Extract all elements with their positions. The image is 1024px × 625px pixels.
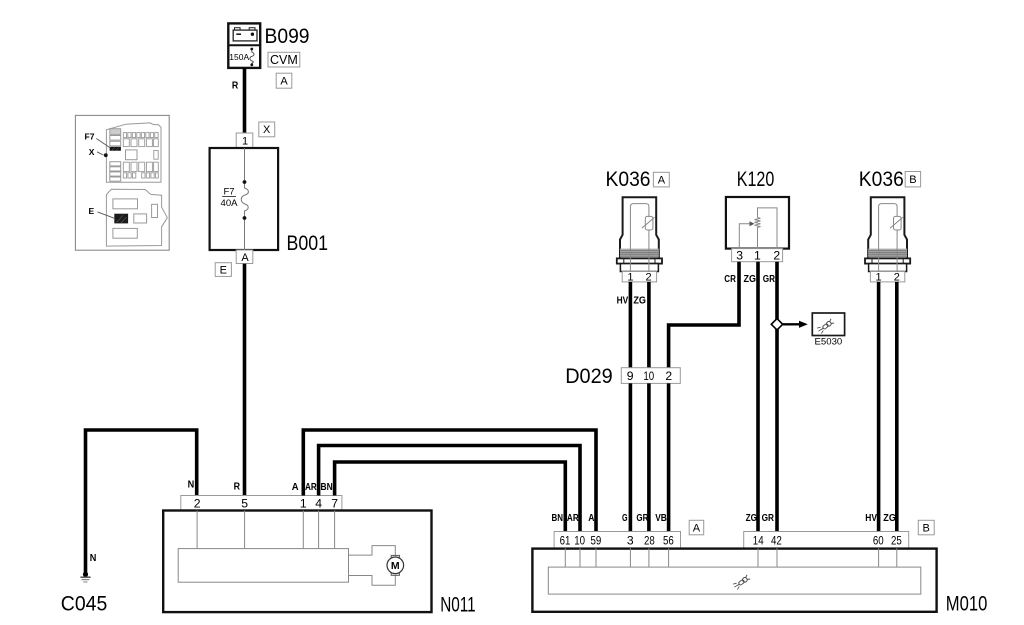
connector E box — [215, 263, 231, 277]
connector B label box — [918, 520, 934, 535]
SECTION: battery B099 — [228, 23, 309, 133]
wire GR K120 pin2 to M010 pin42 — [775, 262, 779, 532]
internal pin leads — [197, 511, 335, 549]
K120 connector strip — [732, 249, 783, 262]
SECTION: M010 — [532, 513, 987, 615]
connector A label box — [689, 520, 704, 535]
svg-text:GR: GR — [636, 513, 648, 524]
svg-text:14: 14 — [753, 534, 764, 548]
SECTION: E5030 — [771, 313, 844, 348]
svg-text:AR: AR — [305, 482, 317, 493]
svg-text:3: 3 — [627, 534, 634, 548]
pin 1 box — [236, 133, 253, 148]
potentiometer symbol — [758, 208, 778, 249]
svg-text:D029: D029 — [565, 365, 613, 388]
svg-text:N011: N011 — [440, 593, 476, 616]
svg-text:2: 2 — [773, 248, 780, 262]
wire GR D029 pin10 to M010 pin28 — [647, 383, 651, 531]
wire VB D029 pin2 to M010 pin56 — [667, 383, 671, 531]
wire ZG K036A pin2 to D029 pin10 — [647, 282, 651, 368]
svg-text:X: X — [89, 147, 95, 157]
svg-text:E5030: E5030 — [815, 337, 843, 348]
svg-text:2: 2 — [194, 497, 201, 511]
inset frame — [75, 115, 169, 250]
slot middle — [134, 214, 147, 223]
relay slots row 3 — [123, 162, 158, 171]
slot top — [113, 199, 138, 209]
wire AR N011 pin4 to M010 pin10 — [319, 446, 580, 532]
wire ZG K120 pin1 to M010 pin14 — [756, 262, 760, 532]
M010 box — [532, 549, 936, 612]
svg-text:GR: GR — [763, 274, 775, 285]
svg-text:9: 9 — [627, 369, 634, 383]
fuse slot column top (covered) — [110, 129, 121, 135]
svg-text:HV: HV — [865, 513, 877, 524]
wiper arrow from pin 3 — [739, 224, 749, 249]
slot right — [154, 151, 158, 160]
body ECU outline (bottom view) — [106, 189, 167, 246]
variant A box — [653, 172, 669, 187]
small slots bottom row — [123, 173, 158, 178]
internal pin leads A — [565, 548, 668, 567]
SECTION: inset fuse box location diagram — [75, 115, 169, 250]
svg-text:25: 25 — [891, 534, 902, 548]
svg-text:A: A — [658, 175, 666, 187]
splice junction diamond — [771, 319, 782, 330]
svg-text:5: 5 — [241, 497, 248, 511]
wire A N011 pin1 to M010 pin59 — [303, 430, 596, 532]
SECTION: fuse B001 — [210, 122, 328, 496]
svg-text:10: 10 — [643, 369, 654, 383]
glow plug icon — [733, 575, 750, 590]
svg-text:E: E — [89, 206, 95, 216]
svg-text:VB: VB — [655, 513, 667, 524]
svg-text:A: A — [588, 513, 594, 524]
svg-text:ZG: ZG — [883, 513, 896, 524]
svg-text:40A: 40A — [221, 198, 239, 209]
svg-text:K036: K036 — [606, 168, 651, 191]
relay big slot — [126, 150, 138, 160]
svg-text:4: 4 — [315, 497, 322, 511]
svg-text:CVM: CVM — [270, 53, 298, 67]
svg-text:C045: C045 — [61, 592, 108, 615]
variant A box — [276, 73, 292, 88]
svg-text:61: 61 — [560, 534, 571, 548]
wire N ground run — [86, 430, 197, 574]
svg-text:R: R — [234, 482, 240, 493]
SECTION: ground C045 — [61, 430, 197, 615]
svg-text:1: 1 — [242, 136, 248, 148]
svg-text:59: 59 — [591, 534, 602, 548]
SECTION: K036B — [859, 168, 921, 532]
svg-text:F7: F7 — [85, 132, 95, 142]
svg-text:GR: GR — [762, 513, 774, 524]
svg-text:ZG: ZG — [746, 513, 758, 524]
internal glow module block — [548, 567, 921, 594]
wire HV K036A pin1 to D029 pin9 — [629, 282, 633, 368]
fuse box outline (top view) — [106, 123, 161, 182]
svg-text:60: 60 — [873, 534, 884, 548]
svg-text:28: 28 — [644, 534, 655, 548]
fuse element in battery box — [250, 50, 254, 65]
SECTION: K120 — [669, 168, 789, 532]
relay slots row 2 — [123, 139, 158, 147]
svg-text:M010: M010 — [946, 593, 988, 616]
svg-text:B: B — [923, 522, 930, 534]
CVM box — [268, 52, 300, 67]
wire CR K120 pin3 to D029 pin2 — [669, 262, 739, 368]
svg-text:B001: B001 — [287, 232, 329, 255]
svg-text:K036: K036 — [859, 168, 904, 191]
ground C045 symbol — [83, 572, 88, 577]
motor linkage outline — [349, 546, 396, 586]
slot right vertical — [152, 204, 158, 217]
svg-text:1: 1 — [300, 497, 307, 511]
svg-text:CR: CR — [724, 274, 736, 285]
svg-text:B: B — [909, 174, 916, 186]
svg-text:2: 2 — [665, 369, 672, 383]
internal module block — [178, 549, 348, 583]
svg-text:G: G — [622, 513, 628, 524]
svg-text:ZG: ZG — [633, 295, 646, 306]
SECTION: D029 — [565, 365, 680, 531]
sensor K036A symbol — [617, 197, 662, 283]
svg-text:42: 42 — [771, 534, 782, 548]
battery compartment divider — [228, 44, 260, 46]
wire HV K036B pin1 to M010 pin60 — [877, 282, 881, 532]
wire R B001 to N011 pin 5 — [243, 264, 247, 496]
svg-text:N: N — [90, 553, 97, 564]
D029 connector box — [621, 368, 680, 384]
lower fuse slot bars — [110, 162, 121, 182]
svg-text:R: R — [232, 80, 238, 91]
SECTION: wires N011 to M010 — [303, 430, 596, 532]
svg-text:M: M — [391, 560, 400, 572]
N011 connector strip — [181, 496, 342, 511]
svg-text:N: N — [188, 480, 195, 491]
leader E — [98, 212, 115, 219]
fuse element F7 — [241, 182, 248, 218]
relay slots row 1 — [123, 133, 158, 138]
arrow to E5030 — [783, 323, 800, 325]
svg-text:BN: BN — [552, 513, 564, 524]
svg-text:BN: BN — [321, 482, 333, 493]
svg-text:1: 1 — [754, 248, 761, 262]
wire ZG K036B pin2 to M010 pin25 — [895, 282, 899, 532]
location E filled slot — [114, 214, 128, 224]
svg-text:F7: F7 — [223, 186, 234, 197]
svg-text:7: 7 — [331, 497, 338, 511]
internal pin leads B — [758, 548, 897, 567]
fuse slot bars — [110, 136, 121, 146]
sensor K036B symbol — [865, 197, 910, 283]
svg-text:E: E — [220, 264, 227, 276]
N011 box — [163, 511, 431, 613]
slot bottom — [113, 228, 137, 238]
wire R battery to B001 — [243, 68, 247, 133]
K120 box — [726, 197, 789, 249]
svg-text:10: 10 — [574, 534, 585, 548]
glow plug icon — [817, 319, 834, 334]
svg-text:K120: K120 — [737, 168, 775, 191]
B001 box — [210, 148, 279, 250]
svg-text:A: A — [292, 482, 299, 493]
wire BN N011 pin7 to M010 pin61 — [335, 462, 566, 532]
svg-text:150A: 150A — [229, 52, 249, 62]
wire G D029 pin9 to M010 pin3 — [629, 383, 633, 531]
variant B box — [905, 172, 920, 187]
M010 connector strip B — [744, 532, 909, 549]
pin A box — [236, 250, 253, 264]
motor M — [387, 555, 404, 575]
svg-text:X: X — [263, 124, 271, 136]
battery B099 box — [228, 23, 260, 68]
E5030 box — [812, 313, 844, 336]
leader X — [97, 152, 104, 155]
fuse F7 highlighted slot — [110, 147, 121, 151]
M010 connector strip A — [554, 532, 680, 549]
SECTION: K036A — [606, 168, 670, 368]
svg-text:B099: B099 — [265, 25, 310, 48]
svg-text:3: 3 — [736, 248, 743, 262]
potentiometer resistor zigzag — [755, 218, 761, 229]
svg-text:ZG: ZG — [744, 274, 757, 285]
svg-text:56: 56 — [663, 534, 674, 548]
leader F7 — [96, 139, 110, 149]
location dot X — [104, 153, 108, 157]
svg-text:A: A — [241, 252, 249, 264]
svg-text:A: A — [693, 522, 701, 534]
internal fuse line — [244, 148, 246, 250]
svg-text:A: A — [280, 75, 288, 87]
svg-text:AR: AR — [567, 513, 579, 524]
svg-text:HV: HV — [617, 295, 629, 306]
battery symbol — [233, 28, 257, 41]
SECTION: N011 unit — [163, 482, 476, 616]
connector X box — [259, 122, 275, 137]
